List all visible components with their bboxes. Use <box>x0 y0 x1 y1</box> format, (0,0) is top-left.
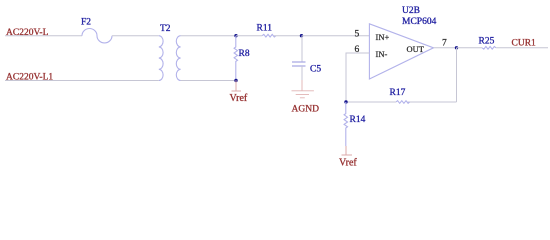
svg-text:R17: R17 <box>390 88 406 98</box>
wire R25 to CUR1 <box>496 47 548 49</box>
svg-text:U2B: U2B <box>402 6 420 16</box>
transformer T2 primary winding <box>159 36 163 81</box>
svg-text:AC220V-L: AC220V-L <box>6 28 49 38</box>
svg-text:C5: C5 <box>310 64 321 74</box>
svg-text:OUT: OUT <box>407 44 425 54</box>
wire output to R25 <box>457 47 483 49</box>
wire fuse to transformer <box>112 35 159 37</box>
wire op-amp output <box>434 47 457 49</box>
wire R17 to junction <box>346 101 396 103</box>
wire secondary bottom lead <box>181 80 236 82</box>
svg-text:R25: R25 <box>479 37 495 47</box>
wire bottom rail left <box>5 80 159 82</box>
svg-text:AGND: AGND <box>292 105 320 115</box>
wire feedback riser right <box>456 48 458 102</box>
wire C5 to ground <box>301 66 303 80</box>
svg-text:5: 5 <box>355 30 360 40</box>
svg-text:F2: F2 <box>81 18 91 28</box>
resistor R8 <box>234 36 237 81</box>
svg-text:R8: R8 <box>239 49 250 59</box>
wire op-amp pin 6 <box>346 53 369 102</box>
wire C5 junction to op-amp pin 5 <box>302 35 370 37</box>
ground AGND <box>292 80 314 98</box>
op-amp U2B <box>369 24 433 79</box>
junction node output <box>455 46 458 49</box>
svg-text:CUR1: CUR1 <box>512 38 537 48</box>
power port Vref lower-left lead <box>232 80 242 91</box>
svg-text:MCP604: MCP604 <box>402 17 437 27</box>
resistor R14 <box>344 102 347 146</box>
svg-text:R11: R11 <box>257 23 273 33</box>
capacitor C5 <box>292 62 306 66</box>
power port Vref bottom lead <box>342 146 353 155</box>
svg-text:AC220V-L1: AC220V-L1 <box>6 73 53 83</box>
resistor R17 <box>396 101 410 104</box>
svg-text:T2: T2 <box>160 24 171 34</box>
junction node R8 bottom <box>234 79 237 82</box>
wire feedback to R17 <box>408 101 457 103</box>
resistor R11 <box>262 34 276 37</box>
svg-text:Vref: Vref <box>339 157 357 168</box>
wire secondary top lead <box>181 35 236 37</box>
resistor R25 <box>482 47 496 50</box>
svg-text:Vref: Vref <box>230 93 248 104</box>
transformer T2 secondary winding <box>176 36 180 81</box>
svg-text:7: 7 <box>442 39 447 49</box>
svg-text:R14: R14 <box>350 115 366 125</box>
svg-text:IN+: IN+ <box>376 32 390 42</box>
wire C5 stub <box>301 36 303 62</box>
junction node inverting input <box>344 100 347 103</box>
wire top rail left <box>5 35 82 37</box>
junction node C5 top <box>300 34 303 37</box>
junction node R8 top <box>234 34 237 37</box>
fuse F2 <box>82 29 112 43</box>
svg-text:IN-: IN- <box>376 49 388 59</box>
wire R11 to C5 junction <box>274 35 302 37</box>
wire junction to R11 <box>236 35 262 37</box>
